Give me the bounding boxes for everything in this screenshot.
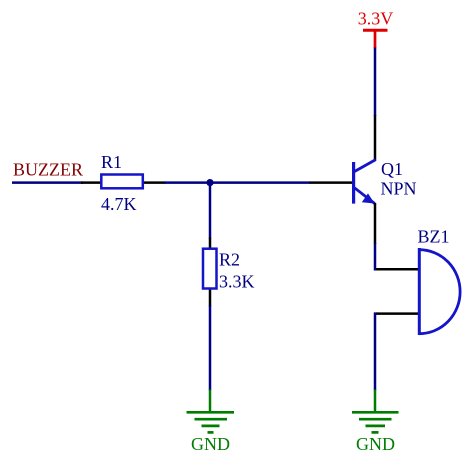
junction node bbox=[206, 179, 213, 186]
svg-text:4.7K: 4.7K bbox=[101, 194, 137, 214]
resistor R2 body bbox=[203, 249, 217, 289]
wire (3.3V to Q1 collector pin) bbox=[374, 48, 377, 117]
wire (BUZZER net to R1 pin 1) bbox=[12, 181, 83, 184]
ground symbol GND right: stem bbox=[374, 390, 377, 413]
wire (Q1 emitter down to BZ1 pin 1) bbox=[375, 243, 377, 269]
ground symbol GND right: bar 3 bbox=[366, 425, 386, 428]
svg-text:NPN: NPN bbox=[381, 179, 417, 199]
wire (R1 to Q1 base, through junction) bbox=[164, 181, 311, 184]
svg-text:BZ1: BZ1 bbox=[418, 227, 450, 247]
transistor Q1 emitter stroke bbox=[355, 188, 375, 204]
transistor Q1 emitter pin bbox=[374, 203, 377, 244]
svg-text:GND: GND bbox=[356, 434, 395, 454]
buzzer BZ1 dome bbox=[419, 250, 460, 334]
wire (BZ1 pin 2 down to right ground) bbox=[375, 314, 377, 391]
svg-text:R2: R2 bbox=[219, 250, 240, 270]
svg-text:3.3V: 3.3V bbox=[358, 9, 394, 29]
ground symbol GND right: bar 1 bbox=[352, 411, 399, 414]
power port 3.3V stem bbox=[374, 30, 377, 49]
transistor Q1 collector stroke bbox=[355, 160, 376, 172]
resistor R1 pin 2 bbox=[143, 181, 166, 184]
resistor R2 pin 1 bbox=[209, 238, 212, 250]
transistor Q1 collector pin bbox=[374, 115, 377, 161]
ground symbol GND left: bar 1 bbox=[187, 411, 235, 414]
ground symbol GND left: bar 2 bbox=[195, 418, 228, 421]
transistor Q1 base bar bbox=[352, 162, 355, 204]
svg-text:GND: GND bbox=[191, 434, 230, 454]
resistor R1 pin 1 bbox=[81, 181, 101, 184]
wire (R2 pin 2 to left ground) bbox=[209, 306, 212, 391]
buzzer BZ1 pin 2 bbox=[376, 312, 419, 315]
svg-text:Q1: Q1 bbox=[381, 159, 403, 179]
svg-text:BUZZER: BUZZER bbox=[13, 160, 83, 180]
transistor Q1 emitter arrow bbox=[362, 193, 375, 203]
ground symbol GND right: bar 2 bbox=[359, 418, 392, 421]
svg-text:R1: R1 bbox=[101, 152, 122, 172]
ground symbol GND left: bar 4 bbox=[208, 431, 214, 434]
buzzer BZ1 flat edge bbox=[418, 248, 421, 335]
power port 3.3V bar bbox=[363, 29, 388, 32]
resistor R1 body bbox=[101, 175, 143, 189]
buzzer BZ1 pin 1 bbox=[376, 268, 419, 271]
transistor Q1 base pin bbox=[310, 181, 354, 184]
ground symbol GND left: stem bbox=[209, 390, 212, 413]
resistor R2 pin 2 bbox=[209, 289, 212, 307]
svg-text:3.3K: 3.3K bbox=[219, 272, 255, 292]
ground symbol GND right: bar 4 bbox=[372, 431, 379, 434]
wire (junction down to R2 pin 1) bbox=[209, 181, 212, 238]
ground symbol GND left: bar 3 bbox=[202, 425, 220, 428]
